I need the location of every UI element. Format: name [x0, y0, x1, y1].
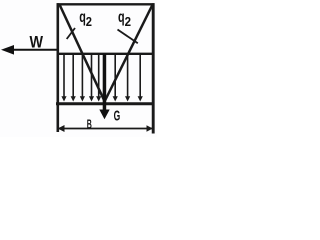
- distributed load arrow 6: [113, 55, 118, 102]
- distributed load arrow 2: [71, 55, 76, 102]
- dimension arrowhead left: [58, 125, 65, 132]
- leader line left q2: [67, 28, 75, 39]
- svg-text:q: q: [79, 9, 86, 26]
- central weight arrow G head: [99, 110, 109, 120]
- right hopper wall: [105, 5, 153, 102]
- leader line right q2: [118, 30, 138, 44]
- bottom line of box: [56, 102, 155, 105]
- dimension arrowhead right: [147, 125, 153, 131]
- svg-text:2: 2: [86, 14, 92, 29]
- svg-text:B: B: [87, 118, 92, 132]
- wind arrow W shaft: [13, 49, 57, 51]
- left hopper wall: [60, 5, 105, 102]
- bunker box right edge / right extension line: [152, 3, 155, 133]
- distributed load arrow 7: [125, 55, 130, 102]
- dimension line B: [58, 128, 153, 130]
- distributed load arrow 1: [61, 55, 66, 102]
- svg-text:2: 2: [125, 14, 131, 29]
- svg-text:G: G: [114, 107, 121, 124]
- central weight arrow G shaft: [103, 54, 107, 111]
- bunker box top edge: [57, 3, 155, 5]
- bunker box left edge / left extension line: [56, 3, 59, 132]
- distributed load arrow 4: [89, 55, 94, 102]
- distributed load arrow 5: [96, 55, 101, 102]
- distributed load arrow 3: [80, 55, 85, 102]
- wind arrow W head: [1, 45, 14, 55]
- distributed load arrow 8: [138, 55, 143, 102]
- svg-text:W: W: [30, 32, 44, 51]
- middle horizontal line (top of load zone): [57, 53, 154, 55]
